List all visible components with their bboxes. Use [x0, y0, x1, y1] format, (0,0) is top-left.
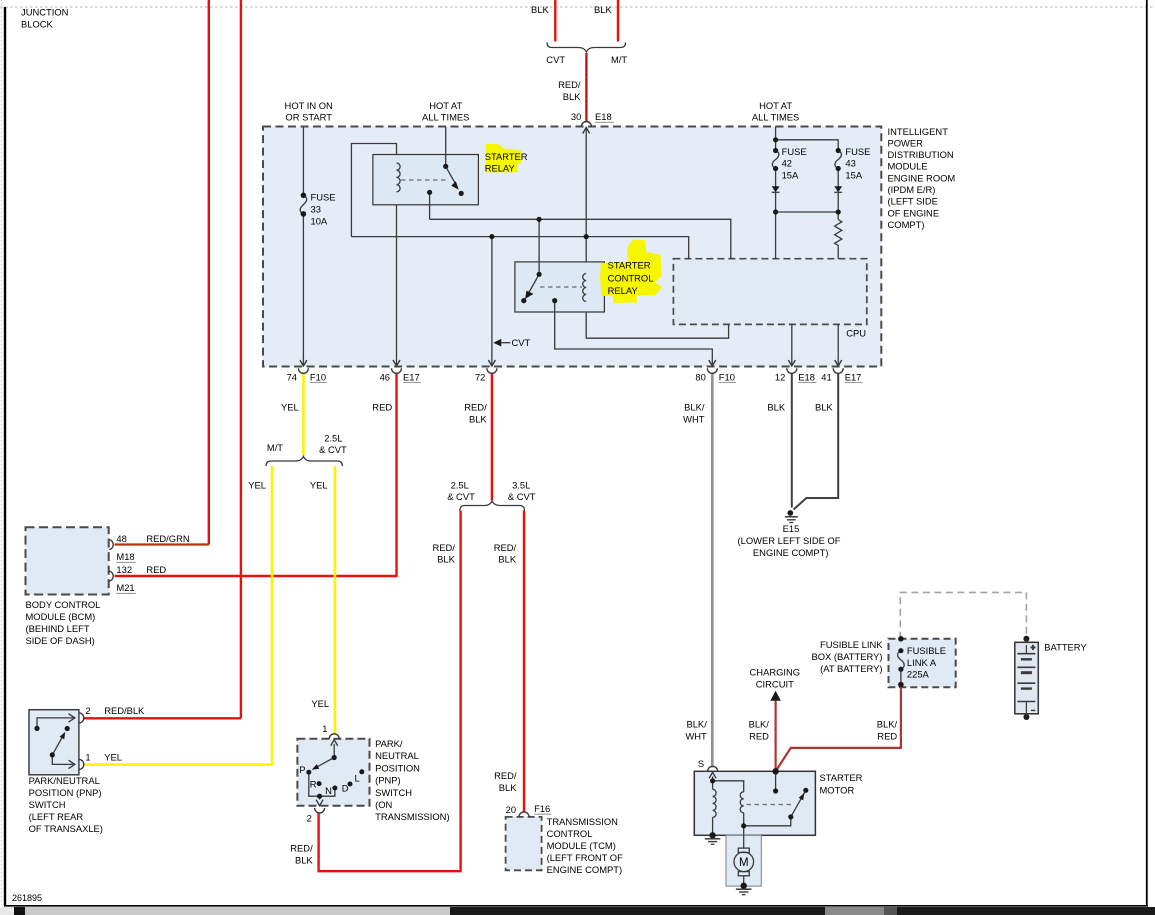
- svg-text:F10: F10: [719, 371, 735, 382]
- svg-text:2.5L: 2.5L: [324, 433, 342, 444]
- svg-text:RED: RED: [749, 730, 769, 741]
- svg-text:2: 2: [307, 813, 312, 824]
- svg-text:RED/: RED/: [432, 542, 455, 553]
- svg-text:CONTROL: CONTROL: [547, 828, 593, 839]
- svg-text:ALL TIMES: ALL TIMES: [422, 112, 469, 123]
- svg-text:3.5L: 3.5L: [512, 479, 530, 490]
- svg-text:D: D: [342, 783, 349, 794]
- svg-text:(LEFT FRONT OF: (LEFT FRONT OF: [547, 852, 623, 863]
- svg-text:72: 72: [475, 371, 485, 382]
- svg-text:(LEFT REAR: (LEFT REAR: [29, 811, 84, 822]
- svg-text:CIRCUIT: CIRCUIT: [756, 678, 794, 689]
- svg-text:48: 48: [116, 533, 126, 544]
- svg-text:(PNP): (PNP): [375, 775, 401, 786]
- svg-text:BLK: BLK: [499, 782, 517, 793]
- svg-text:41: 41: [821, 371, 831, 382]
- svg-text:33: 33: [311, 204, 321, 215]
- svg-text:30: 30: [571, 111, 581, 122]
- svg-text:(LOWER LEFT SIDE OF: (LOWER LEFT SIDE OF: [738, 535, 841, 546]
- svg-text:YEL: YEL: [104, 752, 122, 763]
- svg-text:2.5L: 2.5L: [451, 479, 469, 490]
- svg-text:80: 80: [695, 371, 705, 382]
- svg-text:ENGINE ROOM: ENGINE ROOM: [888, 172, 956, 183]
- svg-text:74: 74: [287, 371, 297, 382]
- svg-text:JUNCTION: JUNCTION: [21, 7, 68, 18]
- svg-text:BOX (BATTERY): BOX (BATTERY): [811, 651, 882, 662]
- svg-text:12: 12: [775, 371, 785, 382]
- svg-text:OF TRANSAXLE): OF TRANSAXLE): [29, 823, 103, 834]
- svg-text:10A: 10A: [311, 216, 328, 227]
- svg-text:& CVT: & CVT: [319, 444, 347, 455]
- svg-text:2: 2: [85, 705, 90, 716]
- svg-text:M: M: [739, 857, 749, 869]
- svg-text:BLOCK: BLOCK: [21, 19, 54, 30]
- svg-text:POSITION (PNP): POSITION (PNP): [29, 787, 102, 798]
- svg-text:BATTERY: BATTERY: [1044, 641, 1087, 652]
- svg-text:E18: E18: [798, 371, 815, 382]
- svg-text:ENGINE COMPT): ENGINE COMPT): [547, 864, 623, 875]
- svg-text:NEUTRAL: NEUTRAL: [375, 750, 419, 761]
- svg-text:YEL: YEL: [310, 479, 328, 490]
- svg-text:15A: 15A: [845, 169, 862, 180]
- svg-text:PARK/NEUTRAL: PARK/NEUTRAL: [29, 775, 100, 786]
- svg-text:TRANSMISSION: TRANSMISSION: [547, 816, 618, 827]
- svg-text:46: 46: [380, 371, 390, 382]
- svg-text:HOT AT: HOT AT: [759, 100, 792, 111]
- svg-text:15A: 15A: [782, 169, 799, 180]
- svg-text:TRANSMISSION): TRANSMISSION): [375, 811, 449, 822]
- svg-text:+: +: [1031, 643, 1036, 652]
- svg-text:RED: RED: [372, 402, 392, 413]
- svg-text:BLK/: BLK/: [686, 718, 707, 729]
- svg-text:WHT: WHT: [683, 413, 705, 424]
- svg-text:RED/BLK: RED/BLK: [104, 705, 145, 716]
- svg-text:BLK/: BLK/: [684, 402, 705, 413]
- svg-text:RED/GRN: RED/GRN: [146, 533, 189, 544]
- svg-text:E17: E17: [403, 371, 420, 382]
- svg-text:LINK A: LINK A: [907, 657, 937, 668]
- svg-text:225A: 225A: [907, 669, 930, 680]
- svg-text:CONTROL: CONTROL: [608, 272, 654, 283]
- svg-text:E17: E17: [845, 371, 862, 382]
- svg-text:(LEFT SIDE: (LEFT SIDE: [888, 196, 938, 207]
- svg-text:HOT IN ON: HOT IN ON: [285, 100, 333, 111]
- svg-text:M21: M21: [116, 582, 134, 593]
- svg-text:CVT: CVT: [546, 54, 565, 65]
- svg-text:MOTOR: MOTOR: [820, 785, 855, 796]
- svg-text:1: 1: [322, 723, 327, 734]
- svg-text:FUSE: FUSE: [845, 146, 870, 157]
- svg-text:STARTER: STARTER: [608, 260, 651, 271]
- svg-text:P: P: [299, 764, 305, 775]
- svg-text:(AT BATTERY): (AT BATTERY): [820, 663, 882, 674]
- svg-text:43: 43: [845, 158, 855, 169]
- svg-text:RED/: RED/: [290, 843, 313, 854]
- svg-text:RED/: RED/: [558, 79, 581, 90]
- svg-text:BLK: BLK: [295, 855, 313, 866]
- svg-text:BLK: BLK: [437, 554, 455, 565]
- svg-text:42: 42: [782, 158, 792, 169]
- svg-text:L: L: [355, 772, 360, 783]
- svg-text:M/T: M/T: [611, 54, 627, 65]
- svg-text:DISTRIBUTION: DISTRIBUTION: [888, 149, 954, 160]
- svg-text:OR START: OR START: [285, 112, 332, 123]
- svg-text:YEL: YEL: [281, 402, 299, 413]
- svg-text:F16: F16: [534, 803, 550, 814]
- svg-text:BLK: BLK: [594, 4, 612, 15]
- svg-text:FUSIBLE: FUSIBLE: [907, 645, 946, 656]
- svg-text:BLK: BLK: [563, 91, 581, 102]
- svg-text:& CVT: & CVT: [508, 491, 536, 502]
- svg-text:MODULE: MODULE: [888, 161, 928, 172]
- svg-text:N: N: [325, 785, 332, 796]
- svg-text:BLK: BLK: [531, 4, 549, 15]
- svg-text:FUSIBLE LINK: FUSIBLE LINK: [820, 639, 883, 650]
- svg-text:POWER: POWER: [888, 137, 924, 148]
- svg-text:BLK/: BLK/: [877, 718, 898, 729]
- svg-text:BLK: BLK: [498, 554, 516, 565]
- svg-text:BODY CONTROL: BODY CONTROL: [26, 599, 101, 610]
- svg-text:132: 132: [116, 564, 132, 575]
- svg-text:FUSE: FUSE: [782, 146, 807, 157]
- svg-text:SWITCH: SWITCH: [29, 799, 66, 810]
- svg-text:S: S: [698, 758, 704, 769]
- svg-text:ALL TIMES: ALL TIMES: [752, 112, 799, 123]
- svg-text:CHARGING: CHARGING: [750, 666, 801, 677]
- svg-text:M18: M18: [116, 551, 134, 562]
- svg-text:MODULE (BCM): MODULE (BCM): [26, 611, 96, 622]
- svg-text:E15: E15: [783, 523, 800, 534]
- svg-text:RED/: RED/: [494, 770, 517, 781]
- svg-text:HOT AT: HOT AT: [429, 100, 462, 111]
- svg-text:STARTER: STARTER: [820, 772, 863, 783]
- svg-text:PARK/: PARK/: [375, 738, 403, 749]
- svg-text:R: R: [310, 779, 317, 790]
- svg-text:(IPDM E/R): (IPDM E/R): [888, 184, 936, 195]
- svg-text:CVT: CVT: [512, 337, 531, 348]
- svg-text:ENGINE COMPT): ENGINE COMPT): [753, 547, 829, 558]
- svg-text:RELAY: RELAY: [485, 162, 516, 173]
- svg-text:F10: F10: [310, 371, 326, 382]
- svg-text:RELAY: RELAY: [608, 285, 639, 296]
- svg-text:STARTER: STARTER: [485, 151, 528, 162]
- svg-text:1: 1: [85, 752, 90, 763]
- svg-text:261895: 261895: [12, 893, 42, 903]
- svg-text:M/T: M/T: [267, 442, 283, 453]
- svg-text:FUSE: FUSE: [311, 192, 336, 203]
- svg-text:INTELLIGENT: INTELLIGENT: [888, 126, 949, 137]
- svg-text:RED: RED: [146, 564, 166, 575]
- svg-text:BLK: BLK: [469, 413, 487, 424]
- svg-text:& CVT: & CVT: [447, 491, 475, 502]
- svg-text:SWITCH: SWITCH: [375, 787, 412, 798]
- svg-text:RED: RED: [877, 730, 897, 741]
- svg-text:RED/: RED/: [464, 402, 487, 413]
- svg-text:COMPT): COMPT): [888, 219, 925, 230]
- svg-text:MODULE (TCM): MODULE (TCM): [547, 840, 616, 851]
- svg-text:RED/: RED/: [494, 542, 517, 553]
- svg-text:CPU: CPU: [846, 327, 866, 338]
- svg-text:WHT: WHT: [685, 730, 707, 741]
- svg-text:(BEHIND LEFT: (BEHIND LEFT: [26, 623, 90, 634]
- svg-text:BLK/: BLK/: [749, 718, 770, 729]
- svg-text:SIDE OF DASH): SIDE OF DASH): [26, 635, 95, 646]
- svg-text:YEL: YEL: [248, 479, 266, 490]
- svg-text:OF ENGINE: OF ENGINE: [888, 207, 940, 218]
- svg-text:YEL: YEL: [311, 698, 329, 709]
- svg-text:E18: E18: [595, 111, 612, 122]
- svg-text:(ON: (ON: [375, 799, 392, 810]
- svg-text:BLK: BLK: [767, 402, 785, 413]
- svg-text:BLK: BLK: [815, 402, 833, 413]
- svg-text:20: 20: [506, 804, 516, 815]
- svg-text:POSITION: POSITION: [375, 762, 420, 773]
